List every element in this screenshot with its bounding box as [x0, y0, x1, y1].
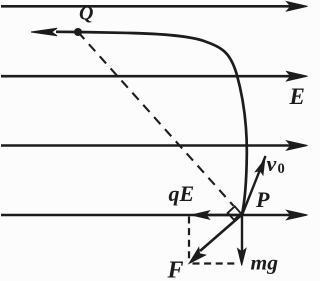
svg-text:v: v — [267, 151, 277, 176]
svg-text:E: E — [289, 84, 305, 109]
svg-text:Q: Q — [79, 3, 93, 25]
svg-text:qE: qE — [169, 181, 195, 206]
svg-text:0: 0 — [278, 161, 285, 177]
svg-text:mg: mg — [251, 251, 279, 275]
svg-text:P: P — [255, 187, 270, 212]
svg-text:F: F — [167, 258, 184, 281]
